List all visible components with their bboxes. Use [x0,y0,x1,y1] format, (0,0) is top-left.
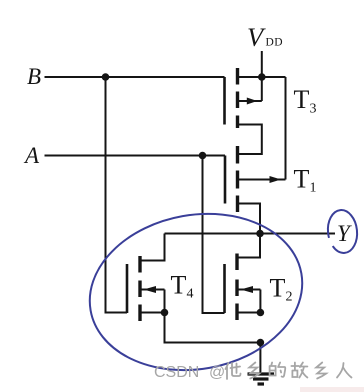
wire A input line [45,155,226,157]
wire right rail to T1 substrate [285,77,287,180]
node B junction dot [102,73,110,81]
svg-text:V: V [247,22,266,52]
transistor T4 [127,256,165,321]
node T4 source dot [161,309,169,317]
svg-text:B: B [27,64,41,89]
wire B input line [45,76,225,78]
svg-text:T: T [294,165,310,194]
wire VDD lead [261,51,263,77]
wire output Y line [165,233,336,235]
svg-text:1: 1 [310,181,317,196]
char 乡 (1) [249,363,259,379]
char 乡 (2) [316,363,326,379]
svg-text:2: 2 [286,290,293,305]
svg-text:CSDN: CSDN [154,364,199,381]
wire A branch down to T2 gate [203,156,225,314]
svg-text:Y: Y [337,221,352,246]
char 他 [226,363,241,379]
transistor T1 [225,146,286,234]
label T2 [270,274,293,305]
svg-text:@: @ [209,364,225,381]
watermark chinese characters [226,363,352,380]
svg-text:4: 4 [187,287,194,302]
wire source bus T4 to T2 [165,313,261,343]
node T2 source dot [257,309,265,317]
char 故 [291,363,307,378]
node A junction dot [199,152,207,160]
node Y junction dot [256,230,264,238]
power label VDD [247,22,283,52]
label T3 [294,85,317,117]
svg-text:A: A [23,143,40,168]
annotation small blue ellipse around Y [326,209,359,255]
svg-text:DD: DD [266,37,283,49]
transistor T3 [225,68,262,154]
svg-text:T: T [171,271,187,300]
node VDD junction dot [258,73,266,81]
wire T2 drain riser [239,234,261,258]
svg-text:T: T [294,85,310,114]
ground [248,374,275,384]
svg-text:3: 3 [310,102,317,117]
transistor T2 [225,254,261,321]
node ground junction dot [257,339,265,347]
svg-text:T: T [270,274,286,303]
wire T3 drain node horizontal [238,76,286,78]
label T4 [171,271,194,302]
annotation big blue ellipse around T4 T2 [77,198,314,387]
char 的 [270,363,286,377]
wire T4 drain riser [140,234,165,261]
bottom right faint band [300,387,364,392]
label T1 [294,165,317,196]
char 人 [337,363,352,378]
wire ground lead [259,343,261,374]
wire B branch down to T4 gate [106,77,128,313]
